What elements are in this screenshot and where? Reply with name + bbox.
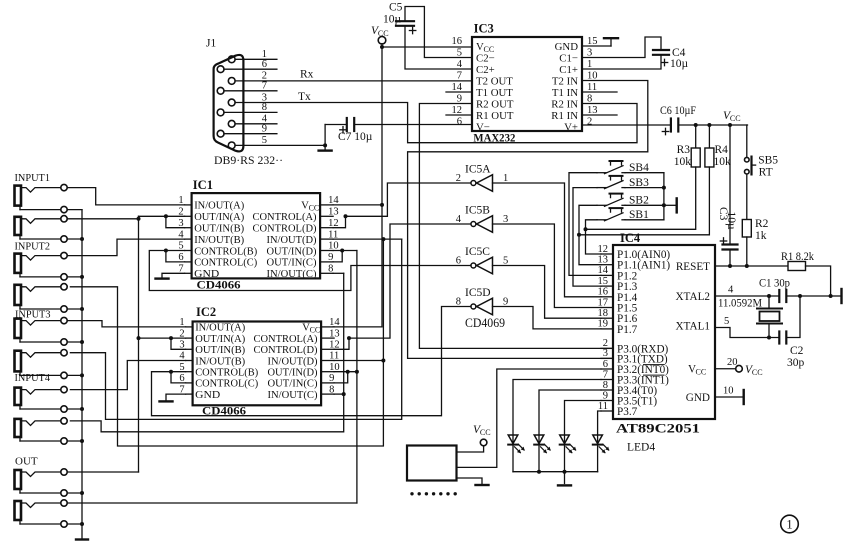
inverter IC5D [471,298,493,315]
svg-text:12: 12 [452,105,463,116]
svg-text:INPUT3: INPUT3 [15,309,51,321]
IC3 pin 16 number [452,36,463,47]
svg-text:CONTROL(B): CONTROL(B) [195,367,258,379]
wire IC1 pin2 row [139,215,185,217]
wire IC3 pin3 to C4 [582,37,661,58]
label IC5C [465,246,490,258]
IC3 pin 3 number [587,47,592,58]
svg-text:18: 18 [598,308,609,319]
connector JK9 phone jack [15,469,68,496]
pin number 6 [262,59,267,70]
junction C1-C2 node [798,294,802,298]
diode LED1 [508,435,525,453]
J1 pin 9 lead [224,133,277,135]
svg-text:CONTROL(B): CONTROL(B) [194,245,257,257]
wire IC2 pins5-6 tie [171,372,186,383]
svg-text:17: 17 [598,297,609,308]
IC3 pin 15 number [587,36,598,47]
IC2 pin label OUT/IN(B) [195,344,245,356]
label R3 value [674,156,692,168]
IC4 pin 13 number [598,255,609,266]
IC1 pin label Vcc [301,200,319,213]
svg-text:OUT/IN(B): OUT/IN(B) [194,223,244,235]
IC3 pin 14 stub [446,91,472,93]
IC1 pin 4 number [178,229,184,240]
IC4 pin label P3.5(T1) [617,396,657,408]
IC3 pin label R2 IN [551,99,578,111]
IC2 pin 8 stub [321,393,334,395]
IC1 pin 14 stub [320,204,333,206]
label C6 value [660,105,696,117]
wire module gnd [457,478,483,484]
label CD4069 [465,316,505,330]
svg-text:IC2: IC2 [196,305,216,319]
IC3 pin label R2 OUT [476,99,514,111]
svg-text:10k: 10k [674,156,692,168]
svg-text:13: 13 [587,105,598,116]
IC2 pin 9 number [329,373,334,384]
wire C4 to IC3 pin1 [582,55,661,69]
wire IC1 pin14 row [333,204,382,206]
svg-text:RT: RT [759,167,773,179]
wire R4 to rail [708,125,710,148]
svg-text:C1+: C1+ [559,64,578,76]
svg-text:7: 7 [457,70,462,81]
wire SB right bus [663,173,665,220]
resistor R1 [788,262,806,271]
svg-text:3: 3 [603,348,608,359]
wire SB5 to R2 [746,174,748,219]
IC1 pin 9 stub [320,261,333,263]
wire IC3 pin10 T2IN to IC4 P3.1 [408,81,648,359]
wire IC2 pin8 row [334,393,344,395]
IC5C pin 5 number [503,256,508,267]
IC4 pin label P3.7 [617,406,638,418]
label INPUT2 [15,241,51,253]
IC1 pin label CONTROL(B) [194,245,257,257]
IC2 pin label OUT/IN(C) [268,378,318,390]
IC1 pin 12 number [328,218,339,229]
junction bus JK4 [80,307,84,311]
connector JK2 phone jack [15,216,68,243]
IC1 pin label CONTROL(A) [253,211,317,223]
connector JK3 phone jack [15,252,68,280]
IC4 pin 6 number [603,359,608,370]
wire crystal top [768,296,770,309]
wire IC1pin11 net vertical [70,239,401,419]
IC4 pin stub 14 [601,274,613,276]
terminal bar SB [676,198,678,212]
connector JK5 phone jack [15,317,68,345]
wire LED common bus [513,471,598,473]
wire IC1 pin10 row to bus2 [333,250,357,252]
label R2 [755,218,769,230]
label C1 value [759,278,790,290]
IC4 pin 3 number [603,348,608,359]
wire JK2 tip to bus1 [67,218,138,220]
chip IC2 CD4066 body [193,322,322,406]
svg-text:CONTROL(A): CONTROL(A) [254,333,318,345]
junction at C7 ground node [323,143,327,147]
IC1 pin 3 number [178,218,183,229]
svg-text:OUT/IN(C): OUT/IN(C) [268,378,318,390]
IC1 pin 14 number [328,195,339,206]
svg-text:Rx: Rx [300,69,314,81]
svg-text:10: 10 [723,386,734,397]
IC1 pin 1 number [178,195,183,206]
IC4 pin stub 12 [601,253,613,255]
wire JK9 tip to bus1 [67,471,138,473]
svg-text:XTAL1: XTAL1 [675,321,710,333]
label AT89C2051 [616,422,700,436]
svg-text:CC: CC [480,428,491,437]
IC1 pin 5 number [178,241,183,252]
svg-text:10µ: 10µ [670,58,689,70]
connector JK8 phone jack [15,418,68,445]
svg-text:GND: GND [555,41,579,53]
label C4 [672,47,686,59]
pin number 8 [262,102,267,113]
svg-text:OUT/IN(D): OUT/IN(D) [268,367,318,379]
IC3 pin 9 number [457,93,462,104]
svg-text:19: 19 [598,319,609,330]
IC3 pin 1 number [587,59,592,70]
junction C3-RESET [728,264,732,268]
wire JK7 sleeve to bus [67,408,82,410]
label C7 value [338,131,373,143]
wire SB2 right [625,204,664,206]
IC2 pin label IN/OUT(B) [195,355,245,367]
svg-text:CC: CC [730,114,741,123]
svg-text:IN/OUT(D): IN/OUT(D) [268,355,318,367]
capacitor C5 [396,21,414,26]
wire JK1 tip to IC1 pin1 [67,188,184,205]
IC3 pin 11 stub [582,91,617,93]
IC3 pin 6 number [457,116,462,127]
svg-text:IN/OUT(B): IN/OUT(B) [194,234,244,246]
connector JK7 phone jack [15,386,68,412]
label IC4 [620,231,641,245]
IC2 pin 8 number [329,384,334,395]
wire SB2 left to P1.1 [579,205,601,264]
wire C7 to IC3 V- pin6 [354,124,472,126]
svg-text:9: 9 [603,390,608,401]
junction IC2 pin13 node [347,336,351,340]
label J1 [206,38,216,50]
wire pin11s tie vertical [70,239,383,446]
junction SB1-R3 node [584,227,588,231]
svg-text:3: 3 [587,47,592,58]
J1 pin 4 contact [228,120,235,127]
IC4 pin label P1.6 [617,313,638,325]
wire JK5 sleeve to bus [67,341,82,343]
wire SB2 to bar [664,204,676,206]
pin number 1 [262,49,267,60]
svg-text:R1 OUT: R1 OUT [476,110,514,122]
svg-text:13: 13 [598,255,609,266]
svg-text:GND: GND [195,389,220,401]
wire rail to SB5 [746,125,748,157]
IC2 pin 4 stub [186,360,193,362]
junction R2-RESET [745,264,749,268]
wire J1 pin5 to ground node [235,144,325,146]
IC4 pin 8 number [603,380,608,391]
IC4 pin 2 number [603,338,608,349]
wire crystal bottom [768,324,770,338]
IC2 pin 10 stub [321,371,334,373]
IC4 pin label P1.0(AIN0) [617,249,670,261]
IC1 pin 10 stub [320,250,333,252]
IC4 pin 16 number [598,287,609,298]
crystal Y1 [757,309,782,324]
J1 pin 1 contact [228,56,235,63]
IC4 pin 5 number [724,316,729,327]
junction IC2 pin11 node [381,359,385,363]
IC3 pin label C1+ [559,64,578,76]
wire Vcc node to IC3 pin16 [382,44,472,47]
svg-text:14: 14 [598,265,609,276]
IC2 pin 6 number [179,373,184,384]
svg-text:3: 3 [262,92,267,103]
IC2 pin 7 number [179,384,184,395]
diode LED2 [534,435,551,453]
IC4 pin label P1.7 [617,324,638,336]
wire module Vcc [457,446,484,452]
wire R3 bottom to SB1 node [586,167,696,229]
wire LED1 anode [513,380,601,445]
pin number 3 [262,92,267,103]
wire SB1 left to P1.0 [586,220,602,254]
IC2 pin 5 stub [186,371,193,373]
wire JK2 sleeve to bus [67,238,82,240]
IC1 pin 4 stub [185,238,192,240]
IC4 pin 20 number [727,357,738,368]
svg-text:CD4069: CD4069 [465,316,505,330]
svg-text:MAX232: MAX232 [473,132,515,144]
wire IC3 pin15 to ground [582,39,611,47]
plus C3 [720,238,726,244]
plus C4 [661,59,667,65]
IC2 pin label GND [195,389,220,401]
wire IC5C out to IC1 ctrl B/C [149,251,471,291]
IC3 pin 10 number [587,70,598,81]
label C5 [389,2,403,14]
connector JK4 phone jack [15,284,68,313]
resistor R3 [691,148,700,167]
IC1 pin 8 stub [320,272,333,274]
wire IC5D out to IC2 ctrl B/C [152,307,472,416]
svg-text:4: 4 [728,285,734,296]
junction R1 corner [829,294,833,298]
svg-text:IN/OUT(C): IN/OUT(C) [267,268,317,280]
svg-text:IC5A: IC5A [465,163,491,175]
connector JK6 phone jack [15,350,68,379]
IC1 pin label OUT/IN(A) [194,211,244,223]
wire JK6 sleeve to bus [67,374,82,376]
svg-text:9: 9 [457,93,462,104]
ground (DB9 shield) [319,145,332,150]
svg-text:P3.7: P3.7 [617,406,638,418]
wire LED4 cathode [597,445,599,472]
junction C3 top [728,123,732,127]
svg-text:CONTROL(D): CONTROL(D) [254,344,318,356]
svg-text:CD4066: CD4066 [202,404,246,418]
IC3 pin label C2+ [476,64,495,76]
node Vcc module [480,439,487,446]
IC4 pin label P1.3 [617,281,638,293]
IC2 pin 14 stub [321,326,334,328]
junction LED3 bus [563,470,567,474]
svg-text:V−: V− [476,122,490,134]
pin number 2 [262,71,267,82]
IC3 pin label T1 OUT [476,87,513,99]
IC4 pin stub 15 [601,285,613,287]
junction IC1 pin13 node [344,214,348,218]
wire JK3 tip to IC1 pin4 [67,239,184,256]
IC1 pin label GND [194,268,219,280]
label Vcc module [473,424,491,437]
wire R4 bottom to SB2 node [579,167,709,235]
junction Vcc at IC1 pin14 [380,203,384,207]
wire C6 to Vcc rail right [678,124,747,126]
svg-text:RESET: RESET [676,261,710,273]
wire IC5D in to P1.7 [493,307,602,329]
wire ground node up to C7 [324,125,326,146]
svg-text:T1 OUT: T1 OUT [476,87,513,99]
svg-text:C2: C2 [790,345,804,357]
IC4 pin label P1.2 [617,270,637,282]
wire IC1 pin5 row [166,250,185,252]
IC2 pin 3 stub [186,348,193,350]
svg-text:IC1: IC1 [193,178,213,192]
wire bus1 (OUT/IN A-B common) [138,216,140,472]
label SB3 [629,177,649,189]
overline INT1 [644,374,665,376]
IC3 pin label T2 OUT [476,76,513,88]
IC1 pin 13 number [328,207,339,218]
IC4 pin 12 number [598,244,609,255]
wire JK10 tip to bus2 [67,502,357,504]
svg-text:P1.7: P1.7 [617,324,638,336]
junction bus JK2 [80,237,84,241]
IC3 pin label C2&#8722; [476,53,495,65]
wire XTAL1 row [715,328,779,338]
label R4 [715,144,729,156]
pin number 4 [262,114,268,125]
wire JK3 sleeve to bus [67,276,82,278]
svg-text:INPUT1: INPUT1 [15,172,51,184]
IC4 pin label RESET [676,261,710,273]
IC2 pin 6 stub [186,382,193,384]
wire LED bus to ground [564,472,566,484]
IC1 pin 9 number [328,252,333,263]
svg-text:12: 12 [598,244,609,255]
label IC5D [465,287,491,299]
IC2 pin label CONTROL(A) [254,333,318,345]
diode LED4 [593,435,610,453]
capacitor C3 [723,245,738,250]
IC2 pin label OUT/IN(D) [268,367,318,379]
svg-text:CC: CC [378,29,389,38]
svg-text:OUT: OUT [15,456,38,468]
IC4 pin stub 9 [601,400,613,402]
wire IC1 pin7 gnd [162,273,185,277]
IC4 pin 14 number [598,265,609,276]
svg-text:GND: GND [686,392,710,404]
IC4 pin stub 16 [601,296,613,298]
wire JK10 sleeve to bus [67,523,82,525]
junction crystal bottom [767,336,771,340]
IC4 pin label P3.0(RXD) [617,343,669,355]
svg-text:16: 16 [452,36,463,47]
junction bus2-IC2 node [355,370,359,374]
junction crystal top [767,294,771,298]
label INPUT3 [15,309,51,321]
svg-text:IN/OUT(A): IN/OUT(A) [194,200,244,212]
IC1 pin 1 stub [185,204,192,206]
junction bus JK9 [80,491,84,495]
IC1 pin 6 number [178,252,183,263]
wire SB1 right [625,219,664,221]
label IC2 [196,305,216,319]
wire C3 to RESET [729,250,731,267]
junction IC1 pin11 node [381,237,385,241]
junction IC1 pin2 node [164,214,168,218]
chip IC1 CD4066 body [192,193,321,278]
pin number 5 [262,135,267,146]
IC1 pin 2 number [178,207,183,218]
IC4 pin label P1.4 [617,292,638,304]
IC3 pin label T2 IN [552,76,578,88]
svg-text:T2 OUT: T2 OUT [476,76,513,88]
svg-text:OUT/IN(B): OUT/IN(B) [195,344,245,356]
IC2 pin label IN/OUT(D) [268,355,318,367]
IC3 pin 14 number [452,82,463,93]
svg-text:C6 10µF: C6 10µF [660,105,696,117]
terminal bar GND10 [743,390,745,404]
IC4 pin label XTAL2 [675,291,710,303]
IC3 pin label C1&#8722; [559,53,578,65]
IC2 pin 1 number [179,317,184,328]
IC2 pin 12 stub [321,348,334,350]
plus C6 [662,128,668,134]
junction R4 top [707,123,711,127]
IC4 pin label P1.1(AIN1) [617,260,670,272]
wire IC1 pins5-6 tie [166,251,185,262]
terminal bar right [831,289,842,303]
wire LED3 anode [565,401,602,445]
J1 pin 6 lead [224,68,277,70]
label IC3 [474,22,494,36]
IC3 pin 5 number [457,47,462,58]
svg-text:IC4: IC4 [620,231,641,245]
svg-text:1: 1 [786,518,792,532]
IC2 pin 12 number [329,340,340,351]
label R3 [677,144,691,156]
label SB2 [629,195,649,207]
IC1 pin 7 stub [185,272,192,274]
IC1 pin 12 stub [320,227,333,229]
ground (IC3 pin15) [604,37,618,39]
svg-text:IC5C: IC5C [465,246,490,258]
svg-text:10k: 10k [714,156,732,168]
svg-text:XTAL2: XTAL2 [675,291,710,303]
IC2 pin 4 number [179,351,185,362]
wire IC5C in to P1.6 [493,266,602,319]
IC4 pin stub 17 [601,307,613,309]
svg-text:30p: 30p [787,357,805,369]
wire IC2 pins2-3 tie [171,338,186,349]
